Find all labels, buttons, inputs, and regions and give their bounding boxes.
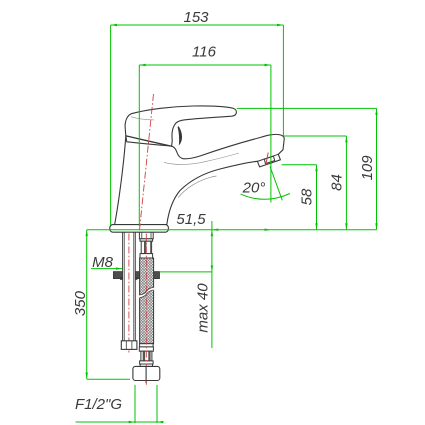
handle lower edge line — [126, 136, 172, 146]
extension line 153 left — [110, 25, 112, 225]
extension line 109 top — [237, 107, 377, 109]
dimension 84 — [328, 136, 347, 230]
hose centerline (red) — [145, 234, 147, 367]
svg-text:51,5: 51,5 — [176, 211, 206, 228]
dimension 153 — [111, 9, 284, 26]
body highlight lines — [131, 117, 239, 198]
M8 mounting stud — [123, 232, 136, 341]
single lever handle — [125, 106, 236, 146]
extension line 116 right / 20-degree vertical ray — [270, 65, 272, 203]
extension line 116 left — [138, 65, 140, 226]
hose braided sleeve — [140, 258, 154, 344]
dimension 51,5 — [176, 211, 271, 231]
deck reference line — [87, 229, 377, 231]
extension line washer level — [160, 271, 212, 273]
svg-text:max 40: max 40 — [194, 283, 211, 333]
extension line 153 right — [282, 25, 284, 136]
svg-text:84: 84 — [328, 174, 345, 191]
aerator insert — [264, 156, 274, 163]
dimension 116 — [139, 44, 271, 67]
dimension 350 — [72, 230, 89, 379]
angle dimension 20 degrees — [241, 167, 290, 201]
base flange — [110, 225, 169, 233]
extension line 58 top — [282, 164, 317, 166]
hose break mark — [139, 287, 154, 298]
svg-text:153: 153 — [183, 9, 209, 26]
mounting washer plate — [113, 272, 159, 280]
dimension 58 — [298, 165, 317, 230]
hose centerline below nut (red) — [145, 381, 147, 387]
svg-text:20°: 20° — [242, 180, 266, 197]
dimension max 40 — [194, 221, 213, 348]
svg-text:M8: M8 — [92, 254, 113, 271]
label M8 with leader — [91, 254, 122, 271]
stud centerline (red) — [128, 234, 130, 353]
handle rear shadow crescent — [178, 126, 182, 146]
faucet tilt axis centerline (red) — [139, 94, 153, 232]
svg-text:58: 58 — [298, 188, 315, 205]
aerator flow centerline (red) — [266, 153, 268, 165]
hose end nut G1/2 — [133, 366, 160, 383]
svg-text:F1/2"G: F1/2"G — [75, 396, 122, 413]
extension line 84 top — [283, 135, 346, 137]
dimension F1/2"G — [75, 385, 163, 423]
aerator housing top edge — [257, 154, 278, 161]
dimension 109 — [359, 108, 378, 229]
svg-text:350: 350 — [72, 290, 89, 316]
hose lower fitting — [139, 344, 153, 367]
svg-text:116: 116 — [192, 44, 217, 61]
svg-text:109: 109 — [359, 155, 376, 181]
stud mounting nut — [121, 341, 137, 350]
faucet body and spout outline — [115, 134, 285, 224]
extension line hose end level — [87, 378, 130, 380]
